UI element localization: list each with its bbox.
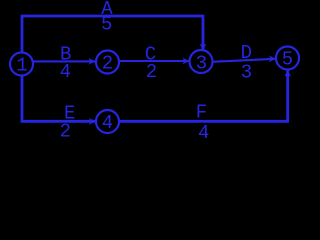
arrowhead into node 3 (right) [182, 58, 189, 65]
svg-text:2: 2 [60, 121, 71, 143]
svg-text:2: 2 [102, 53, 113, 75]
svg-text:2: 2 [146, 61, 157, 83]
node 5 [276, 47, 299, 70]
arrowhead into node 4 (right) [89, 118, 96, 125]
wire: edge A path (node1 up, across top, down to node3) [22, 16, 203, 64]
wire: edge E path (node1 down, across to node4) [22, 64, 96, 121]
svg-text:1: 1 [16, 55, 27, 77]
svg-text:5: 5 [282, 49, 293, 71]
arrowhead into node 5 (up) [284, 70, 291, 77]
arrowhead into node 5 (right) [269, 55, 276, 62]
node 4 [96, 110, 119, 133]
arrowhead into node 2 (right) [88, 58, 95, 65]
svg-text:4: 4 [60, 61, 71, 83]
svg-text:F: F [196, 102, 207, 124]
wire: edge C line node2->node3 [108, 60, 190, 62]
svg-text:4: 4 [102, 112, 113, 134]
svg-text:5: 5 [101, 14, 112, 36]
svg-text:3: 3 [241, 62, 252, 84]
svg-text:4: 4 [198, 122, 209, 144]
arrowhead into node 3 (down) [200, 44, 207, 51]
node 1 [10, 53, 33, 76]
wire: edge B line node1->node2 [31, 60, 95, 62]
wire: edge F path (node4 right, up into node5) [108, 70, 288, 121]
svg-text:3: 3 [196, 53, 207, 75]
node 3 [190, 50, 213, 73]
wire: edge D line node3->node5 [212, 59, 276, 62]
node 2 [96, 51, 119, 74]
